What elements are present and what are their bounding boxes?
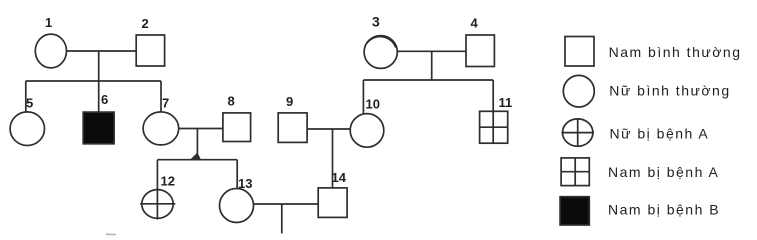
svg-text:Nam bị bệnh A: Nam bị bệnh A: [608, 164, 719, 180]
svg-text:Nam bình thường: Nam bình thường: [609, 44, 742, 60]
svg-text:14: 14: [332, 170, 347, 185]
svg-text:4: 4: [471, 16, 479, 31]
svg-text:10: 10: [366, 97, 380, 112]
svg-text:12: 12: [161, 174, 175, 189]
svg-text:11: 11: [499, 95, 513, 110]
svg-text:6: 6: [101, 92, 108, 107]
svg-text:2: 2: [142, 16, 149, 31]
svg-text:13: 13: [238, 176, 252, 191]
svg-text:Nữ bị bệnh A: Nữ bị bệnh A: [610, 126, 710, 142]
svg-text:3: 3: [372, 14, 380, 30]
svg-text:1: 1: [45, 15, 52, 30]
svg-text:9: 9: [286, 94, 293, 109]
svg-text:Nữ bình thường: Nữ bình thường: [609, 83, 730, 99]
svg-text:8: 8: [228, 94, 235, 109]
svg-text:7: 7: [162, 95, 169, 110]
svg-text:5: 5: [26, 95, 33, 110]
svg-text:Nam bị bệnh B: Nam bị bệnh B: [608, 202, 720, 218]
